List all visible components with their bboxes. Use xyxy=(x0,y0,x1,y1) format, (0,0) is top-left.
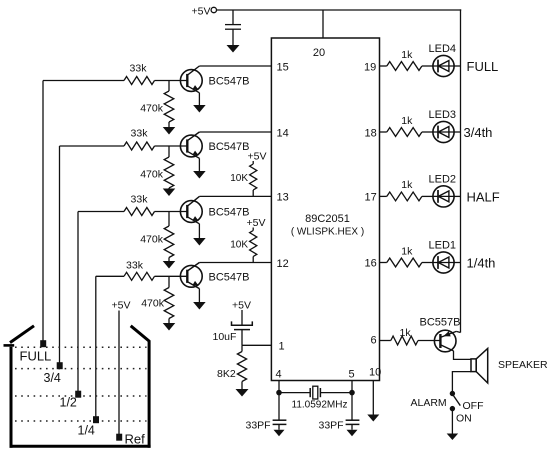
transistor Q5 label xyxy=(420,317,461,329)
wire pin to 1k LED1 xyxy=(380,262,387,264)
ground below switch xyxy=(447,434,459,441)
capacitor C2 label xyxy=(213,331,237,343)
svg-text:5: 5 xyxy=(349,369,355,381)
wire 1k to LED2 xyxy=(422,195,433,197)
wire 1k to LED1 xyxy=(422,262,433,264)
wire C3 to ground xyxy=(278,424,280,429)
LED LED2 name label xyxy=(429,173,457,185)
svg-text:33k: 33k xyxy=(126,260,144,272)
wire LED1 to rail xyxy=(454,262,460,264)
+5V supply label xyxy=(192,6,211,18)
probe 1/2 contact xyxy=(75,391,81,398)
crystal X1 label xyxy=(292,400,348,411)
transistor Q4 label xyxy=(209,271,250,283)
wire C4 to ground xyxy=(351,424,353,429)
svg-text:1k: 1k xyxy=(401,245,413,257)
resistor 1k LED2 xyxy=(387,192,422,201)
level label FULL xyxy=(467,59,499,74)
IC label 89C2051 xyxy=(305,213,350,225)
wire collector to pin row 3 xyxy=(199,195,271,197)
tank right wall xyxy=(148,341,151,448)
tank left tick xyxy=(4,344,15,347)
resistor 1k LED1 xyxy=(387,258,422,267)
speaker label xyxy=(498,359,548,371)
IC U1 89C2051 body xyxy=(271,38,379,381)
svg-text:SPEAKER: SPEAKER xyxy=(498,359,548,371)
wire 1k to LED4 xyxy=(422,65,433,67)
svg-text:BC547B: BC547B xyxy=(209,207,250,219)
wire rail to capacitor C1 xyxy=(232,10,234,25)
capacitor C3 label xyxy=(246,420,271,432)
wire pin 6 to 1k xyxy=(380,340,391,342)
svg-text:LED1: LED1 xyxy=(429,240,457,252)
switch label ON xyxy=(456,413,472,425)
switch label ALARM xyxy=(411,397,447,409)
svg-text:10K: 10K xyxy=(230,173,248,184)
wire speaker to switch xyxy=(452,372,471,392)
pin 6 number xyxy=(371,335,377,347)
svg-text:+5V: +5V xyxy=(248,151,267,163)
transistor Q2 BC547B xyxy=(180,132,202,171)
svg-text:10K: 10K xyxy=(230,240,248,251)
probe 1/4 contact xyxy=(93,416,99,423)
transistor Q3 label xyxy=(209,207,250,219)
resistor 33k row 3 xyxy=(124,208,155,216)
ground below Q1 emitter xyxy=(193,105,206,113)
svg-text:BC547B: BC547B xyxy=(209,271,250,283)
svg-text:33k: 33k xyxy=(131,194,149,206)
ground below 470k row 3 xyxy=(163,261,176,269)
tank label 1/4 xyxy=(78,424,95,438)
resistor 470k row 3 label xyxy=(140,234,164,246)
svg-text:3/4th: 3/4th xyxy=(464,125,493,140)
svg-text:12: 12 xyxy=(277,258,289,270)
pin 20 number xyxy=(313,47,325,59)
wire probe drop 4 xyxy=(95,276,97,418)
tank bottom xyxy=(10,445,151,448)
pin 18 number xyxy=(365,128,377,140)
LED LED3 xyxy=(433,121,454,142)
ground below Q2 emitter xyxy=(193,171,206,179)
tank right flap xyxy=(131,326,150,342)
wire crystal left xyxy=(279,392,310,394)
svg-text:1/4: 1/4 xyxy=(78,424,95,438)
capacitor C4 33PF xyxy=(346,420,360,424)
resistor 8K2 label xyxy=(217,368,236,380)
svg-text:6: 6 xyxy=(371,335,377,347)
svg-text:ALARM: ALARM xyxy=(411,397,447,409)
pin 19 number xyxy=(364,62,376,74)
wire Q5 collector to speaker xyxy=(454,351,472,360)
resistor 1k alarm xyxy=(391,336,418,345)
svg-text:ON: ON xyxy=(456,413,472,425)
resistor 1k LED3 label xyxy=(401,115,413,127)
probe 3/4 contact xyxy=(57,362,63,369)
svg-text:89C2051: 89C2051 xyxy=(305,213,350,225)
tank label Ref xyxy=(125,432,146,447)
svg-text:10uF: 10uF xyxy=(213,331,237,343)
resistor 470k row 2 label xyxy=(140,169,164,181)
svg-text:17: 17 xyxy=(365,192,377,204)
svg-text:+5V: +5V xyxy=(247,217,266,229)
transistor Q4 BC547B xyxy=(180,263,202,303)
svg-text:BC557B: BC557B xyxy=(420,317,461,329)
pin 4 number xyxy=(276,369,282,381)
svg-text:1k: 1k xyxy=(401,49,413,61)
transistor Q1 label xyxy=(209,76,250,88)
svg-text:33k: 33k xyxy=(131,128,149,140)
wire top +5V rail xyxy=(217,9,462,11)
resistor 470k row 4 xyxy=(164,276,174,323)
LED LED4 xyxy=(433,55,454,76)
wire probe drop 3 xyxy=(77,212,79,393)
pin 15 number xyxy=(277,62,289,74)
junction node pin 4 xyxy=(277,390,282,395)
ground below C1 xyxy=(227,45,240,53)
wire pin5 node to C4 xyxy=(351,393,353,421)
pin 10 number xyxy=(369,367,381,379)
crystal X1 11.0592MHz xyxy=(310,386,320,399)
transistor Q2 label xyxy=(209,141,250,153)
switch SW1 bottom contact xyxy=(450,406,454,410)
transistor Q3 BC547B xyxy=(180,196,202,238)
wire collector to pin row 4 xyxy=(199,262,271,264)
switch SW1 top contact xyxy=(450,391,454,395)
resistor 470k row 4 label xyxy=(141,298,165,310)
ground below C4 xyxy=(347,430,358,437)
LED LED3 name label xyxy=(429,109,457,121)
svg-text:14: 14 xyxy=(277,128,289,140)
wire LED2 to rail xyxy=(454,195,460,197)
svg-text:33PF: 33PF xyxy=(319,420,344,432)
wire 33k to base 1 xyxy=(155,80,188,82)
+5V label 10K pullup 1 xyxy=(248,151,267,163)
svg-text:BC547B: BC547B xyxy=(209,141,250,153)
resistor 8K2 xyxy=(237,345,246,389)
pin 12 number xyxy=(277,258,289,270)
svg-text:4: 4 xyxy=(276,369,282,381)
wire pin to 1k LED3 xyxy=(380,131,387,133)
+5V label reset xyxy=(232,300,251,312)
wire pin to 1k LED4 xyxy=(380,65,387,67)
svg-text:19: 19 xyxy=(364,62,376,74)
svg-text:HALF: HALF xyxy=(467,190,500,205)
wire pin 5 stub xyxy=(351,381,353,393)
+5V label 10K pullup 2 xyxy=(247,217,266,229)
wire node to pin 1 xyxy=(242,344,271,346)
wire crystal right xyxy=(320,392,352,394)
ground below Q3 emitter xyxy=(193,238,206,246)
svg-text:OFF: OFF xyxy=(463,400,484,412)
svg-text:16: 16 xyxy=(365,258,377,270)
svg-text:+5V: +5V xyxy=(192,6,211,18)
svg-text:470k: 470k xyxy=(140,234,164,246)
tank water dotted line 4 xyxy=(15,420,147,422)
svg-text:33PF: 33PF xyxy=(246,420,271,432)
level label HALF xyxy=(467,190,500,205)
resistor 10K pullup 1 label xyxy=(230,173,248,184)
LED LED4 name label xyxy=(429,43,457,55)
pin 16 number xyxy=(365,258,377,270)
wire right +5V rail down to BC557B emitter xyxy=(460,9,462,332)
capacitor C4 label xyxy=(319,420,344,432)
svg-text:LED2: LED2 xyxy=(429,173,457,185)
svg-text:11.0592MHz: 11.0592MHz xyxy=(292,400,348,411)
svg-text:8K2: 8K2 xyxy=(217,368,236,380)
resistor 1k alarm label xyxy=(400,327,412,339)
+5V terminal circle xyxy=(211,7,216,12)
resistor 470k row 1 xyxy=(164,81,174,128)
tank label FULL xyxy=(20,349,52,364)
wire C2 to node xyxy=(241,330,243,346)
wire base row 3 xyxy=(78,211,124,213)
svg-text:13: 13 xyxy=(277,192,289,204)
ground below 470k row 4 xyxy=(163,323,176,331)
transistor Q1 BC547B xyxy=(180,66,202,105)
resistor 33k row 4 xyxy=(124,272,155,280)
wire LED3 to rail xyxy=(454,131,460,133)
resistor 10K pullup 1 xyxy=(250,161,257,196)
svg-text:LED4: LED4 xyxy=(429,43,457,55)
svg-text:1k: 1k xyxy=(401,115,413,127)
wire 1k to LED3 xyxy=(422,131,433,133)
switch label OFF xyxy=(463,400,484,412)
level label 1/4th xyxy=(467,256,496,271)
ground below C3 xyxy=(274,430,285,437)
wire probe drop 1 xyxy=(42,81,44,343)
switch SW1 lever xyxy=(453,395,460,405)
capacitor C3 33PF xyxy=(273,420,287,424)
probe FULL contact xyxy=(40,340,46,347)
tank left flap xyxy=(10,326,34,343)
svg-text:470k: 470k xyxy=(141,298,165,310)
resistor 33k row 2 label xyxy=(131,128,149,140)
wire collector to pin row 1 xyxy=(199,65,271,67)
wire 33k to base 4 xyxy=(155,275,188,277)
resistor 1k LED3 xyxy=(387,128,422,137)
wire base row 4 xyxy=(96,275,124,277)
resistor 1k LED4 label xyxy=(401,49,413,61)
tank water dotted line 1 xyxy=(15,346,147,348)
svg-text:20: 20 xyxy=(313,47,325,59)
wire switch to ground xyxy=(451,411,453,434)
ground below Q4 emitter xyxy=(193,302,206,310)
svg-text:+5V: +5V xyxy=(232,300,251,312)
wire 1k to Q5 base xyxy=(418,340,440,342)
svg-text:33k: 33k xyxy=(130,63,148,75)
junction node pin 5 xyxy=(350,390,355,395)
svg-text:FULL: FULL xyxy=(467,59,499,74)
speaker LS1 xyxy=(471,348,488,383)
wire pin4 node to C3 xyxy=(278,393,280,421)
wire 33k to base 2 xyxy=(155,145,188,147)
resistor 470k row 1 label xyxy=(140,103,164,115)
LED LED1 name label xyxy=(429,240,457,252)
tank label 1/2 xyxy=(60,396,77,410)
tank water dotted line 2 xyxy=(15,368,147,370)
resistor 33k row 1 xyxy=(124,77,155,85)
resistor 33k row 3 label xyxy=(131,194,149,206)
svg-text:FULL: FULL xyxy=(20,349,52,364)
resistor 33k row 1 label xyxy=(130,63,148,75)
wire collector to pin row 2 xyxy=(199,131,271,133)
resistor 1k LED2 label xyxy=(401,179,413,191)
resistor 1k LED1 label xyxy=(401,245,413,257)
svg-text:1k: 1k xyxy=(401,179,413,191)
resistor 470k row 3 xyxy=(164,212,174,262)
ground below 470k row 1 xyxy=(163,127,176,135)
probe Ref contact xyxy=(116,434,122,441)
tank water dotted line 3 xyxy=(15,395,147,397)
svg-text:LED3: LED3 xyxy=(429,109,457,121)
resistor 33k row 4 label xyxy=(126,260,144,272)
wire pin 4 stub xyxy=(278,381,280,393)
LED LED1 xyxy=(433,252,454,273)
tank left wall xyxy=(10,347,13,448)
svg-text:BC547B: BC547B xyxy=(209,76,250,88)
IC label WLISPK.HEX xyxy=(291,227,364,238)
wire probe drop 2 xyxy=(59,146,61,364)
wire base row 2 xyxy=(60,145,125,147)
wire pin 10 stub xyxy=(372,381,374,415)
transistor Q5 BC557B xyxy=(434,330,460,352)
capacitor C1 plates xyxy=(225,25,241,30)
resistor 10K pullup 2 label xyxy=(230,240,248,251)
svg-text:15: 15 xyxy=(277,62,289,74)
wire +5V to C2 xyxy=(241,310,243,325)
wire 33k to base 3 xyxy=(155,211,188,213)
svg-text:10: 10 xyxy=(369,367,381,379)
wire pin to 1k LED2 xyxy=(380,195,387,197)
pin 5 number xyxy=(349,369,355,381)
svg-text:1/2: 1/2 xyxy=(60,396,77,410)
ground below pin 10 xyxy=(367,415,379,422)
ground below 8K2 xyxy=(236,389,249,397)
resistor 1k LED4 xyxy=(387,62,422,71)
pin 13 number xyxy=(277,192,289,204)
svg-text:Ref: Ref xyxy=(125,432,146,447)
svg-text:1/4th: 1/4th xyxy=(467,256,496,271)
resistor 10K pullup 2 xyxy=(250,228,257,263)
pin 1 number xyxy=(279,341,285,353)
level label 3/4th xyxy=(464,125,493,140)
pin 14 number xyxy=(277,128,289,140)
svg-text:470k: 470k xyxy=(140,169,164,181)
ground below 470k row 2 xyxy=(163,189,176,197)
wire pin20 to rail xyxy=(322,10,324,38)
tank label 3/4 xyxy=(44,371,61,385)
+5V label Ref probe xyxy=(112,300,131,312)
wire LED4 to rail xyxy=(454,65,460,67)
resistor 33k row 2 xyxy=(124,142,155,150)
wire base row 1 xyxy=(43,80,124,82)
svg-text:+5V: +5V xyxy=(112,300,131,312)
LED LED2 xyxy=(433,186,454,207)
svg-text:1: 1 xyxy=(279,341,285,353)
wire C1 to ground xyxy=(232,29,234,45)
svg-text:( WLISPK.HEX ): ( WLISPK.HEX ) xyxy=(291,227,364,238)
pin 17 number xyxy=(365,192,377,204)
probe Ref wire xyxy=(118,311,120,436)
svg-text:3/4: 3/4 xyxy=(44,371,61,385)
svg-text:18: 18 xyxy=(365,128,377,140)
svg-text:470k: 470k xyxy=(140,103,164,115)
resistor 470k row 2 xyxy=(164,146,174,189)
capacitor C2 10uF xyxy=(232,321,253,329)
